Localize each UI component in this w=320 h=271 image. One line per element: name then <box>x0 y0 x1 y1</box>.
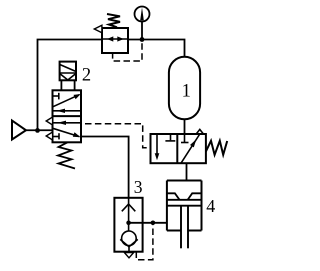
wire V2 pilot dashed to pilot valve <box>85 124 151 148</box>
V2 bottom square diagonal arrow <box>53 128 79 136</box>
cylinder rod <box>180 206 182 249</box>
accumulator 1 <box>169 57 200 120</box>
V2 exhaust triangle top <box>46 117 52 125</box>
V2 exhaust triangle bottom <box>46 132 52 140</box>
valve 3 up chevron <box>122 204 136 211</box>
V5 blocked port right <box>184 134 186 142</box>
svg-text:3: 3 <box>134 177 143 197</box>
valve 3 bottom triangle <box>124 253 133 258</box>
pressure reducing valve body <box>102 28 128 53</box>
reducing valve pilot dashed loop <box>113 41 142 61</box>
cylinder 4 body <box>167 180 202 182</box>
V5 exhaust chevron <box>196 129 203 133</box>
V2 bottom square left arrow <box>53 122 82 124</box>
wire accumulator to pilot valve <box>184 119 186 134</box>
valve 3 check ball <box>122 231 137 246</box>
valve 3 pilot dashed line <box>136 223 153 260</box>
V2 top square diagonal arrow <box>53 95 79 107</box>
V2 top square blocked port <box>53 95 59 97</box>
wire main line to accumulator <box>128 40 185 57</box>
air source triangle <box>12 121 26 140</box>
valve 3 check seat <box>120 239 138 246</box>
svg-text:1: 1 <box>182 81 191 101</box>
V5 spring <box>206 141 227 155</box>
wire gauge stem <box>141 21 143 39</box>
V5 blocked port left <box>170 134 172 140</box>
wire V2 output to valve 3 <box>81 137 129 198</box>
svg-text:2: 2 <box>82 65 91 85</box>
V5 diagonal arrow <box>181 134 200 163</box>
cylinder piston <box>167 199 202 201</box>
valve 3 body <box>114 198 142 252</box>
reducing valve spring <box>107 14 120 27</box>
node pilot tap <box>151 221 156 226</box>
solenoid actuator of valve 2 <box>60 62 76 81</box>
wire valve 3 to cylinder <box>129 222 167 224</box>
reducing valve exhaust triangle <box>94 25 102 33</box>
valve V2 body <box>53 90 82 142</box>
V2 bottom square blocked port <box>53 136 60 138</box>
solenoid stem <box>60 80 62 90</box>
wire riser to regulator <box>38 40 103 131</box>
reducing valve arrowhead right <box>117 36 124 41</box>
V5 down arrow <box>156 134 158 156</box>
reducing valve arrowhead left <box>107 36 113 41</box>
V2 top square left arrow <box>53 110 82 112</box>
node pump junction <box>35 128 40 133</box>
wire pump line <box>26 129 53 131</box>
pressure gauge <box>135 7 150 22</box>
node gauge junction <box>140 37 145 42</box>
pilot valve V5 body <box>151 134 206 163</box>
node valve 3 junction <box>126 221 131 226</box>
reducing valve flow line <box>102 38 128 40</box>
cylinder cup seal <box>167 193 180 200</box>
svg-text:4: 4 <box>206 196 215 216</box>
valve 3 internal line <box>128 198 130 232</box>
V2 return spring <box>58 142 75 168</box>
wire pilot valve to cylinder <box>186 163 188 180</box>
